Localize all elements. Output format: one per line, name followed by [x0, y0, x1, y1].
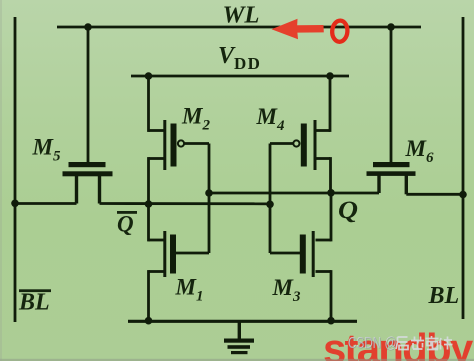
svg-text:Q: Q [338, 197, 358, 224]
svg-text:WL: WL [223, 3, 260, 29]
transistor M1 channel plate [163, 231, 166, 277]
label Qbar overline [117, 211, 137, 214]
wire VDD line [131, 75, 349, 78]
ground stem [238, 321, 241, 339]
svg-text:standby: standby [323, 325, 474, 361]
wire M3 drain vertical [330, 193, 333, 241]
node dot BLbar [11, 200, 19, 208]
watermark glyph 3 [426, 336, 439, 350]
svg-text:CSDN @: CSDN @ [349, 336, 398, 353]
node dot Qbar-left [145, 200, 153, 208]
wire M3 gate wire [270, 252, 300, 255]
wire M2 source stub [149, 129, 165, 132]
wire M2 drain stub [149, 157, 165, 160]
wire M6 to BL [406, 193, 463, 196]
node dot VDD-M4 [326, 72, 334, 80]
red 0 annotation [331, 20, 348, 42]
wire M5 gate from WL [87, 27, 90, 163]
node dot Q-left [205, 189, 213, 197]
wire Qbar left segment [15, 202, 77, 205]
transistor M2 bubble [178, 140, 184, 146]
wire M1 source stub [149, 270, 165, 273]
transistor M1 gate bar [170, 235, 176, 274]
svg-text:Q: Q [117, 212, 134, 237]
node dot VDD-M2 [145, 72, 153, 80]
wire M1 source vertical [147, 270, 150, 321]
wire M3 source stub [316, 270, 332, 273]
node dot WL-M6 [387, 23, 395, 31]
ground bar 2 [228, 345, 251, 349]
wire M4 drain vertical [329, 157, 332, 193]
bottom edge artifact [0, 359, 474, 361]
wire M2 gate wire [184, 142, 209, 145]
svg-text:BL: BL [18, 290, 50, 316]
wire M6 left stub [377, 176, 380, 194]
red arrow annotation [272, 19, 324, 40]
wire BL rail [462, 17, 465, 319]
transistor M6 gate bar [373, 162, 410, 167]
wire ground rail [128, 320, 357, 323]
wire left gate vertical [208, 144, 211, 254]
svg-text:BL: BL [428, 283, 460, 309]
transistor M4 channel plate [314, 120, 317, 170]
node dot Qbar-right [266, 201, 274, 209]
wire M6 right stub [405, 176, 408, 195]
ground bar 1 [224, 339, 254, 343]
transistor M2 gate bar [171, 124, 177, 167]
node dot gnd-M3 [327, 317, 335, 325]
transistor M4 bubble [293, 140, 299, 146]
transistor M5 channel plate [63, 171, 113, 176]
wire M2 source vertical [147, 76, 150, 132]
transistor M6 channel plate [367, 171, 416, 176]
node dot BL [459, 191, 467, 199]
transistor M5 gate bar [69, 162, 106, 167]
transistor M3 channel plate [312, 231, 315, 277]
wire M1 drain stub [149, 239, 165, 242]
wire M5 left stub [75, 176, 78, 204]
ground bar 3 [231, 351, 248, 354]
node dot WL-M5 [84, 23, 92, 31]
wire Q line [209, 192, 379, 195]
left edge artifact [0, 0, 2, 361]
transistor M2 channel plate [163, 120, 166, 170]
transistor M4 gate bar [301, 124, 307, 167]
watermark glyph 1 [396, 337, 408, 350]
node dot Q-right [327, 189, 335, 197]
wire M2 drain vertical [147, 157, 150, 204]
wire M4 gate wire [270, 142, 293, 145]
wire M3 drain stub [316, 239, 332, 242]
watermark glyph 2 [411, 337, 424, 350]
wire Qbar mid segment [100, 202, 271, 205]
wire M3 source vertical [330, 270, 333, 321]
transistor M3 gate bar [300, 235, 306, 274]
node dot gnd-M1 [145, 317, 153, 325]
wire BLbar rail [14, 17, 17, 322]
label BLbar overline [19, 289, 51, 292]
wire M4 source vertical [329, 76, 332, 132]
wire M5 right stub [98, 176, 101, 204]
wire M1 gate wire [176, 252, 209, 255]
wire M4 source stub [315, 129, 330, 132]
wire WL word line [57, 26, 421, 29]
wire M1 drain vertical [147, 204, 150, 241]
wire M4 drain stub [315, 157, 330, 160]
wire M6 gate from WL [390, 27, 393, 163]
watermark glyph 4 [440, 337, 453, 350]
wire right gate vertical [269, 144, 272, 254]
